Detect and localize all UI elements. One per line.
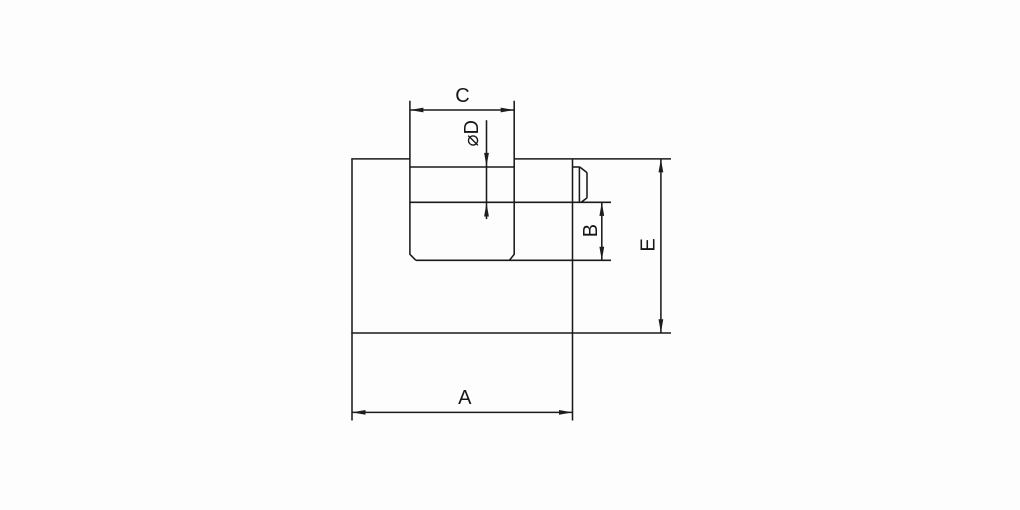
arrow B top	[599, 202, 604, 216]
shackle housing left edge with chamfer	[410, 101, 416, 261]
arrow A left	[352, 410, 366, 415]
dimension A line	[352, 411, 573, 413]
arrow A right	[559, 410, 573, 415]
body bottom edge (with E extension)	[351, 332, 671, 334]
body top edge left segment	[351, 158, 410, 160]
arrow D down (tip at shackle top)	[484, 153, 489, 167]
dimension B line	[601, 202, 603, 260]
arrow C left	[410, 108, 424, 113]
arrow D up (tip at shackle bottom)	[484, 203, 489, 217]
arrow C right	[501, 108, 515, 113]
arrow B bottom	[599, 247, 604, 260]
svg-text:C: C	[455, 85, 469, 107]
shackle top line	[410, 166, 514, 168]
body top edge right segment (with E extension)	[514, 158, 671, 160]
dimension C line	[410, 109, 514, 111]
shackle housing bottom edge (with B extension)	[416, 259, 611, 261]
svg-text:A: A	[458, 387, 472, 409]
body right edge (with A extension)	[572, 159, 574, 421]
shackle bottom line (with B extension)	[410, 201, 611, 203]
locking pin	[573, 167, 588, 202]
svg-text:E: E	[638, 238, 660, 251]
body left edge (with A extension)	[351, 159, 353, 421]
svg-text:B: B	[580, 224, 602, 237]
shackle housing right edge with chamfer	[509, 101, 514, 261]
svg-text:⌀D: ⌀D	[461, 120, 483, 146]
arrow E top	[659, 159, 664, 173]
dimension D line	[486, 120, 488, 219]
arrow E bottom	[659, 319, 664, 333]
dimension E line	[660, 159, 662, 333]
